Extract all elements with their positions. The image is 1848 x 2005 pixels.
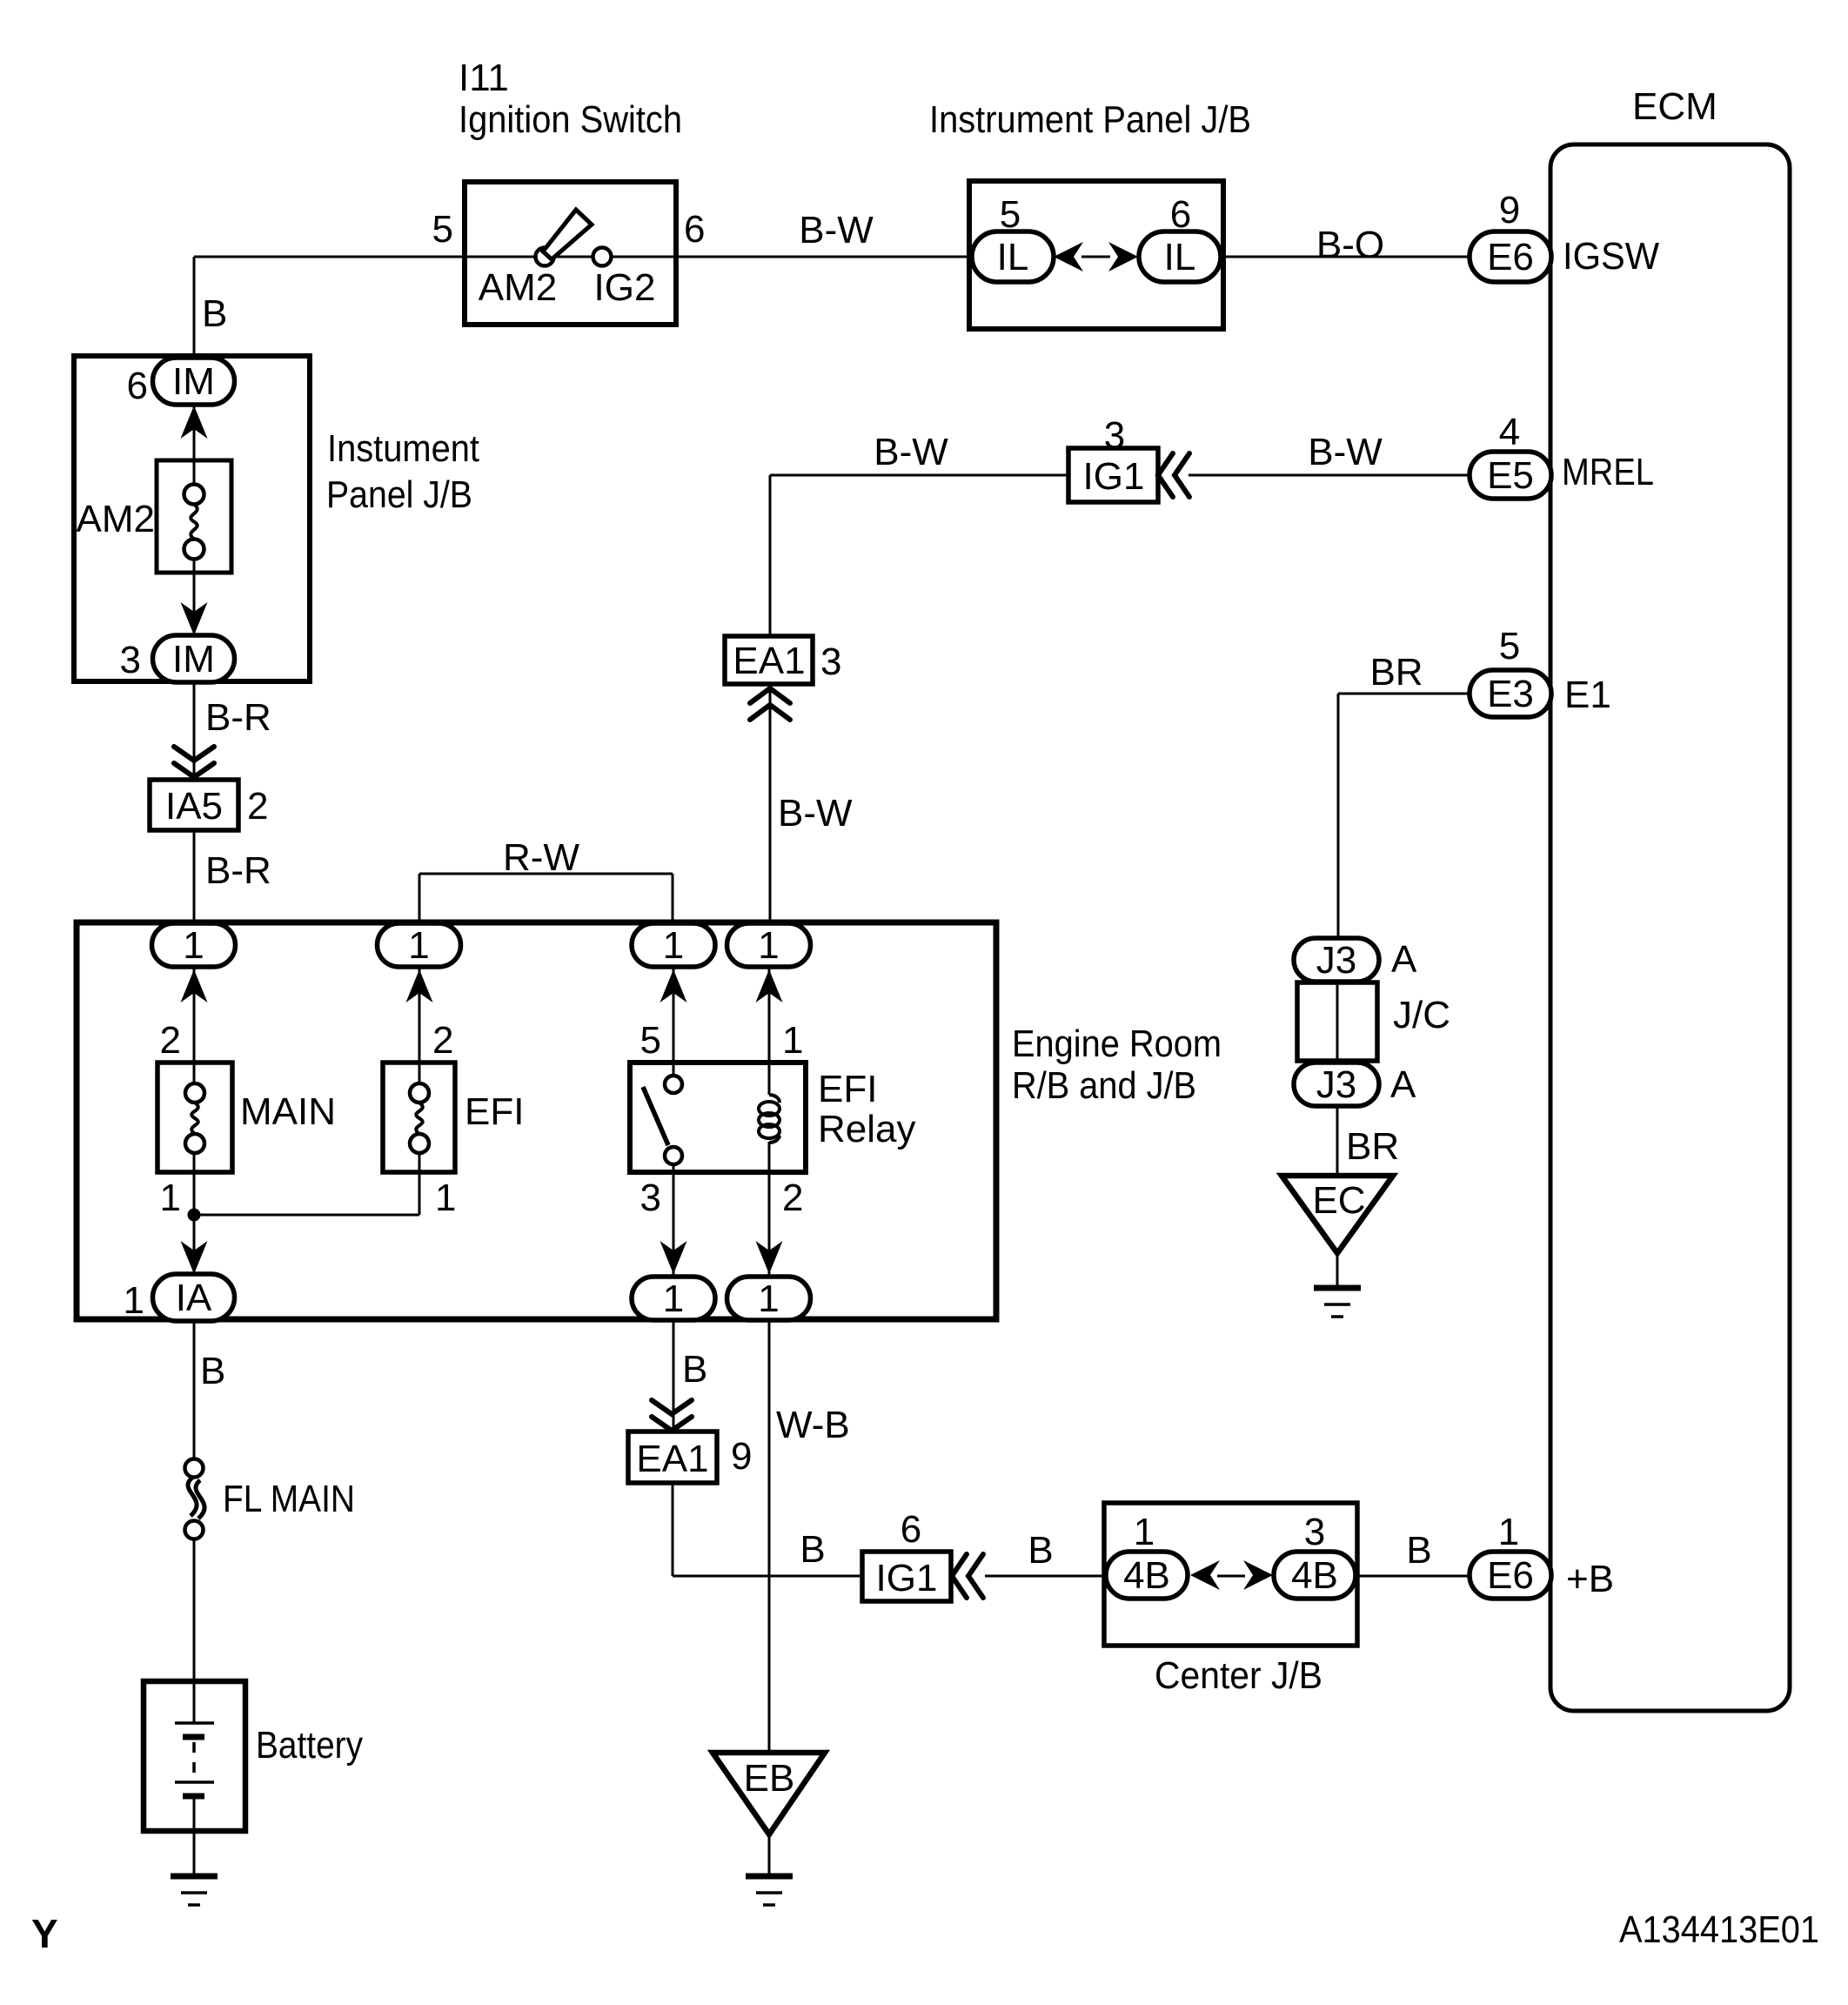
battery cell plate short 1 [183,1734,204,1740]
ground (EB) [746,1876,793,1905]
wire R-W left drop [418,874,421,945]
junction wire to EFI fuse [194,1214,419,1217]
wire W-B from connector to EB ground [768,1320,771,1754]
svg-text:3: 3 [1304,1511,1325,1553]
svg-text:IL: IL [1164,236,1196,278]
svg-text:IM: IM [172,360,215,403]
J/C junction connector box [1297,982,1377,1061]
svg-text:4B: 4B [1291,1554,1338,1597]
relay switch contact pin3 [665,1147,682,1164]
ignition switch lever [543,210,592,259]
svg-text:3: 3 [640,1177,661,1219]
svg-text:IG1: IG1 [1083,455,1145,498]
connector 4B pin3 [1274,1552,1356,1599]
wire AM2 fuse to IM(3) [193,557,196,661]
svg-text:1: 1 [1498,1511,1519,1553]
svg-text:AM2: AM2 [479,266,557,309]
wire BR down to J3 [1337,694,1340,940]
svg-text:Ignition Switch: Ignition Switch [459,98,682,141]
fuse AM2 [184,485,204,560]
wire EB to ground [768,1834,771,1876]
ground (EC) [1314,1288,1361,1317]
wire MREL B-W horizontal left [770,474,1068,477]
svg-text:R/B and J/B: R/B and J/B [1012,1064,1196,1107]
svg-text:EA1: EA1 [733,640,805,682]
svg-text:FL MAIN: FL MAIN [223,1478,355,1520]
svg-text:4B: 4B [1123,1554,1170,1597]
svg-text:6: 6 [684,208,705,251]
wire B-O from IL to ECM E6 [1220,256,1470,258]
svg-text:B-R: B-R [205,696,271,739]
arrow into connector 1 (EFI) [406,969,433,1002]
ignition switch contact AM2 [536,248,554,266]
connector E3 pin5 E1 [1470,670,1551,717]
svg-text:+B: +B [1566,1558,1614,1600]
wire relay coil to connector 2 [768,1142,771,1298]
svg-text:IGSW: IGSW [1563,235,1659,278]
splice chevron into IA5 [174,747,214,777]
battery box [144,1681,245,1831]
svg-text:6: 6 [901,1508,921,1551]
svg-text:1: 1 [408,924,429,967]
svg-text:2: 2 [160,1019,181,1062]
svg-text:W-B: W-B [776,1404,850,1446]
wire B-W from EA1 to connector 1 [769,682,772,945]
svg-text:Instrument Panel J/B: Instrument Panel J/B [929,98,1251,141]
connector E6 pin1 +B [1470,1552,1551,1599]
wire battery to ground [193,1827,196,1876]
svg-text:Center J/B: Center J/B [1155,1654,1322,1697]
connector 1 (MAIN top) [152,923,236,967]
wire B-R from IM(3) to IA5 [193,679,196,780]
svg-text:2: 2 [432,1019,453,1062]
arrow into connector 1 (MAIN) [181,969,208,1002]
splice chevron above EA1(9) [652,1400,692,1431]
connector 1 (pin3 bottom) [632,1277,715,1320]
IG1 connector box (3) [1068,448,1158,502]
battery dashed center line [192,1742,196,1780]
wire relay pin3 to connector 1 [673,1163,675,1298]
wire between IL connectors [1081,256,1110,258]
svg-text:IL: IL [997,236,1029,278]
arrow into 4B(3) [1243,1560,1273,1590]
svg-text:J3: J3 [1316,1063,1356,1106]
svg-text:MREL: MREL [1562,451,1654,493]
fuse EFI [410,1083,429,1153]
svg-text:EA1: EA1 [636,1438,708,1480]
svg-text:9: 9 [1499,189,1520,231]
svg-text:5: 5 [640,1019,661,1062]
connector E5 pin4 MREL [1470,452,1551,499]
ground symbol EC triangle [1282,1176,1393,1253]
wire B down to IM connector [193,257,196,381]
ignition switch box I11 [465,182,676,325]
svg-text:A: A [1390,1063,1416,1106]
svg-text:1: 1 [758,1277,779,1320]
Instrument Panel J/B box (left) [74,356,310,681]
svg-text:Engine Room: Engine Room [1012,1023,1222,1065]
splice chevron right of IG1(3) [1158,453,1189,497]
svg-text:AM2: AM2 [77,498,155,540]
wire J3 to EC ground [1336,1104,1339,1177]
svg-text:2: 2 [247,785,268,828]
arrow into connector 1 (pin2 out) [756,1241,783,1274]
junction node [188,1209,201,1222]
svg-text:1: 1 [160,1177,181,1219]
svg-text:5: 5 [432,208,453,251]
svg-text:3: 3 [820,640,841,683]
svg-text:J/C: J/C [1393,994,1450,1036]
svg-text:1: 1 [663,1277,684,1320]
svg-text:ECM: ECM [1632,85,1717,128]
svg-text:MAIN: MAIN [240,1090,336,1133]
wire between 4B connectors [1217,1575,1245,1578]
svg-text:B: B [202,292,227,335]
svg-text:BR: BR [1369,651,1423,694]
wire inside ignition switch [465,256,676,258]
ground (battery) [171,1876,218,1905]
svg-text:A: A [1391,938,1417,981]
svg-text:4: 4 [1499,411,1520,453]
wire connector 1 to relay pin5 [673,967,675,1079]
svg-text:B: B [200,1350,225,1392]
AM2 fuse box [157,460,231,573]
connector 1 (pin2 bottom) [727,1277,811,1320]
svg-text:E3: E3 [1487,673,1534,715]
relay switch arm [643,1087,668,1145]
svg-text:3: 3 [1104,414,1125,457]
battery inner wire top [193,1683,196,1723]
connector 1 (coil top) [727,923,811,967]
svg-text:E6: E6 [1487,236,1534,278]
svg-text:6: 6 [1170,193,1191,236]
connector 4B pin1 [1106,1552,1188,1599]
fusible link FL MAIN [185,1459,205,1539]
wire B-W down to EA1 [769,475,772,638]
svg-text:3: 3 [120,639,141,681]
Center J/B box [1104,1503,1357,1646]
arrow into connector 1 (pin3 out) [660,1241,687,1274]
svg-text:6: 6 [127,365,148,407]
svg-text:IG2: IG2 [594,266,656,309]
connector IM pin6 [153,358,235,405]
arrow into connector 1 (relay coil) [756,969,783,1002]
svg-text:B: B [682,1348,707,1391]
arrow into connector 1 (relay 5) [660,969,687,1002]
arrow into IM(3) [181,602,208,635]
wire connector 1 to EFI fuse pin2 [418,967,421,1093]
battery cell plate long 2 [175,1780,214,1784]
wire MREL B-W from IG1 to ECM E5 [1188,474,1470,477]
svg-text:1: 1 [124,1279,144,1322]
svg-text:5: 5 [1000,193,1021,236]
fuse MAIN [185,1083,204,1153]
connector J3 A (lower) [1294,1063,1379,1106]
svg-text:1: 1 [663,924,684,967]
svg-text:Relay: Relay [818,1108,916,1150]
svg-text:1: 1 [782,1019,803,1062]
connector IL pin6 [1139,231,1221,282]
wire IG1 to Center J/B 4B [985,1575,1108,1578]
svg-text:E6: E6 [1487,1554,1534,1597]
svg-text:1: 1 [758,924,779,967]
connector J3 A (upper) [1294,938,1379,982]
wire B from ignition switch to Instrument Panel J/B (left) [194,256,465,258]
wire connector 1 to relay coil [768,967,771,1095]
wire FL MAIN to battery [193,1539,196,1683]
Engine Room R/B and J/B box [77,922,996,1319]
svg-text:BR: BR [1346,1125,1399,1168]
arrow into 4B(1) [1190,1560,1220,1590]
svg-text:EB: EB [744,1757,795,1800]
wire BR from ECM E3 horizontal [1338,693,1470,695]
svg-text:J3: J3 [1316,939,1356,982]
svg-text:E1: E1 [1564,674,1611,716]
svg-text:B-W: B-W [778,792,853,835]
J/C divider [1336,984,1339,1059]
battery cell plate long 1 [175,1721,214,1725]
arrow into IM(6) [181,406,208,439]
EA1 connector box (9) [628,1432,717,1483]
battery cell plate short 2 [183,1794,204,1800]
svg-text:A134413E01: A134413E01 [1619,1908,1819,1951]
IA5 connector box [150,780,238,830]
wire EFI fuse pin1 [418,1154,421,1215]
svg-text:EFI: EFI [818,1068,877,1110]
svg-text:Panel J/B: Panel J/B [326,473,472,516]
connector 1 (EFI top) [378,923,461,967]
svg-text:1: 1 [1134,1511,1155,1553]
connector IA pin1 [153,1274,235,1321]
wire connector 1 to EA1(9) [673,1320,675,1433]
svg-text:IM: IM [172,638,215,681]
wire B from 4B to ECM E6 (+B) [1355,1575,1470,1578]
IG1 connector box (6) [862,1552,951,1601]
svg-text:R-W: R-W [503,836,579,879]
svg-text:1: 1 [183,924,204,967]
svg-text:B: B [800,1528,825,1571]
arrow into IL(5) [1054,242,1083,272]
ECM box [1550,144,1790,1711]
wire B horizontal to IG1 [673,1575,862,1578]
svg-text:EFI: EFI [465,1090,524,1133]
svg-text:B-W: B-W [1308,431,1383,473]
svg-text:I11: I11 [459,57,509,99]
splice chevron right of IG1(6) [952,1554,983,1598]
EFI relay box [630,1063,806,1172]
svg-text:Instument: Instument [327,427,479,470]
svg-text:IA: IA [176,1277,212,1319]
connector E6 pin9 IGSW [1470,231,1551,282]
svg-text:B-W: B-W [874,431,948,473]
EFI fuse box [383,1063,455,1172]
wire B-W ignition switch to Instrument Panel J/B [676,256,974,258]
wire B-R from IA5 to Engine Room J/B [193,830,196,945]
connector 1 (relay5 top) [632,923,715,967]
splice chevron below EA1(3) [750,688,790,720]
relay coil [759,1095,780,1143]
svg-text:1: 1 [435,1177,456,1219]
svg-text:9: 9 [731,1435,752,1478]
ignition switch contact IG2 [593,248,612,266]
wire EA1 down [672,1481,674,1576]
arrow into IA [181,1241,208,1274]
svg-text:5: 5 [1499,625,1520,667]
svg-text:IG1: IG1 [876,1557,938,1599]
ground symbol EB triangle [713,1753,825,1834]
wire IM to AM2 fuse [193,400,196,487]
relay switch contact pin5 [665,1076,682,1093]
svg-text:IA5: IA5 [165,785,223,828]
arrow into IL(6) [1108,242,1138,272]
connector IM pin3 [153,635,235,682]
svg-text:EC: EC [1312,1179,1365,1222]
wire EC to ground [1336,1253,1339,1288]
wire R-W right drop [672,874,674,945]
svg-text:B-O: B-O [1316,224,1384,266]
svg-text:B: B [1406,1529,1431,1572]
MAIN fuse box [157,1063,232,1172]
svg-text:B: B [1028,1529,1053,1572]
svg-text:B-R: B-R [205,849,271,892]
svg-text:Battery: Battery [256,1724,363,1767]
svg-text:E5: E5 [1487,454,1534,497]
EA1 connector box (3) [725,636,813,684]
svg-text:Y: Y [31,1911,58,1956]
wire from connector 1 to MAIN fuse [193,967,196,1093]
wire MAIN fuse to IA connector with junction [193,1143,196,1298]
wire R-W horizontal [419,873,673,875]
svg-text:2: 2 [782,1177,803,1219]
Instrument Panel J/B box (top) [969,181,1223,329]
battery inner wire bottom [193,1796,196,1829]
connector IL pin5 [972,231,1054,282]
svg-text:B-W: B-W [799,209,874,251]
wire B from IA connector to FL MAIN [193,1320,196,1460]
